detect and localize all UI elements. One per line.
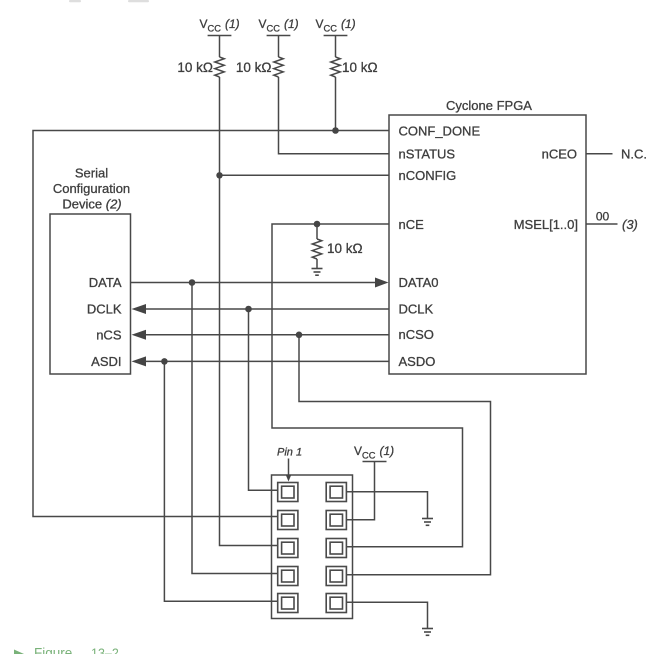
- svg-text:Pin 1: Pin 1: [277, 447, 302, 459]
- svg-text:nCE: nCE: [399, 217, 425, 232]
- svg-text:CONF_DONE: CONF_DONE: [399, 123, 481, 138]
- svg-text:Figure: Figure: [34, 646, 72, 654]
- svg-text:nCEO: nCEO: [542, 147, 577, 162]
- svg-text:Device (2): Device (2): [62, 197, 121, 212]
- svg-text:DCLK: DCLK: [87, 302, 122, 317]
- svg-text:DATA: DATA: [89, 275, 122, 290]
- svg-text:ASDI: ASDI: [91, 354, 121, 369]
- svg-text:10 kΩ: 10 kΩ: [342, 60, 378, 75]
- svg-text:nCS: nCS: [96, 327, 122, 342]
- svg-text:Cyclone FPGA: Cyclone FPGA: [446, 98, 532, 113]
- svg-text:DCLK: DCLK: [399, 302, 434, 317]
- svg-text:N.C.: N.C.: [621, 147, 647, 162]
- svg-text:nCSO: nCSO: [399, 327, 434, 342]
- svg-text:(3): (3): [622, 217, 638, 232]
- svg-text:ASDO: ASDO: [399, 354, 436, 369]
- svg-text:Serial: Serial: [75, 166, 108, 181]
- svg-text:MSEL[1..0]: MSEL[1..0]: [514, 217, 578, 232]
- svg-text:nCONFIG: nCONFIG: [399, 168, 457, 183]
- svg-text:nSTATUS: nSTATUS: [399, 147, 456, 162]
- svg-text:DATA0: DATA0: [399, 275, 439, 290]
- svg-text:10 kΩ: 10 kΩ: [327, 241, 363, 256]
- svg-text:Configuration: Configuration: [53, 181, 130, 196]
- svg-text:13–2: 13–2: [91, 647, 119, 654]
- svg-text:10 kΩ: 10 kΩ: [177, 60, 213, 75]
- svg-text:00: 00: [596, 209, 610, 223]
- svg-text:10 kΩ: 10 kΩ: [236, 60, 272, 75]
